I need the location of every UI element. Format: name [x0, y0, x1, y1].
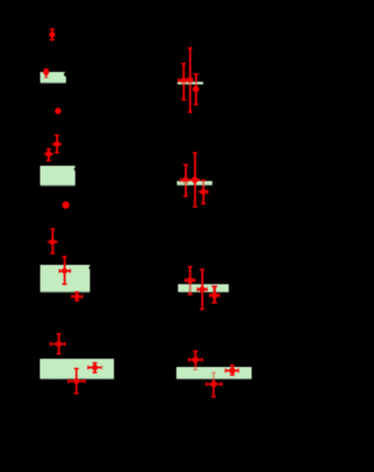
black marker bite on box 3 — [89, 266, 92, 269]
data point M1 (row 1 left) — [49, 28, 55, 40]
data point MB1 (row 2 right, left point) — [180, 164, 190, 197]
green box 4 (theory band, row 4 left) — [40, 359, 113, 379]
data point D1 (lone dot row 1-2) — [55, 108, 61, 114]
data point MD1 (row 4 right, upper left) — [188, 350, 203, 370]
data point MD3 (row 4 right, lower) — [205, 372, 222, 398]
dashed bottom edge of box 1 — [40, 82, 66, 84]
data point M10 (on box 4 right side) — [87, 362, 102, 373]
data point MB3 (row 2 right, lower point) — [199, 180, 209, 205]
dashed bottom edge of box 3 — [40, 291, 90, 293]
dashed bottom edge of band 2 — [177, 184, 212, 186]
green box 1 (theory band, row 1 left) — [41, 73, 66, 84]
dashed bottom edge of box 4 — [40, 378, 114, 380]
green band 1 (theory band, row 1 right) — [177, 82, 203, 85]
black marker bite on box 2 — [74, 168, 77, 171]
green band 4 (theory band, row 4 right) — [177, 368, 251, 379]
dashed bottom edge of box 2 — [40, 185, 75, 187]
data point MA2 (row 1 right, tall bar) — [186, 47, 193, 113]
dashed bottom edge of band 3 — [178, 291, 229, 293]
data point MC3 (row 3 right, lower right) — [209, 286, 220, 304]
data point MA3 (row 1 right, lower point) — [192, 73, 199, 105]
under-band red segments (salmon, band drawn over bars) — [181, 82, 205, 293]
data point MA1 (row 1 right, left point) — [178, 63, 189, 101]
data point M8 (below box 3) — [71, 291, 83, 301]
data point M5 (row 2 left lower) — [44, 148, 53, 161]
dashed bottom edge of band 4 — [176, 378, 251, 380]
data point MB2 (row 2 right, tall bar) — [190, 152, 200, 207]
data point MC2 (row 3 right, middle) — [197, 269, 208, 310]
data point M6 (row 3 left upper) — [48, 228, 58, 254]
data point MC1 (row 3 right, upper left) — [185, 266, 196, 295]
black marker bite on box 1 — [64, 72, 69, 77]
green band 3 (theory band, row 3 right) — [179, 285, 229, 292]
data point D2 (lone dot below box 2) — [62, 201, 69, 208]
green box 3 (theory band, row 3 left) — [41, 265, 90, 292]
data point M4 (row 2 left upper) — [52, 134, 61, 153]
data point M7 (on box 3) — [59, 256, 71, 285]
data point M11 (at bottom edge of box 4) — [68, 368, 86, 394]
green band 2 (theory band, row 2 right) — [177, 181, 212, 185]
data point M2 (on box 1) — [43, 69, 49, 79]
green box 2 (theory band, row 2 left) — [41, 166, 75, 185]
data point M9 (row 4 left upper) — [50, 333, 66, 355]
data point MD2 (row 4 right, on band) — [225, 365, 239, 376]
